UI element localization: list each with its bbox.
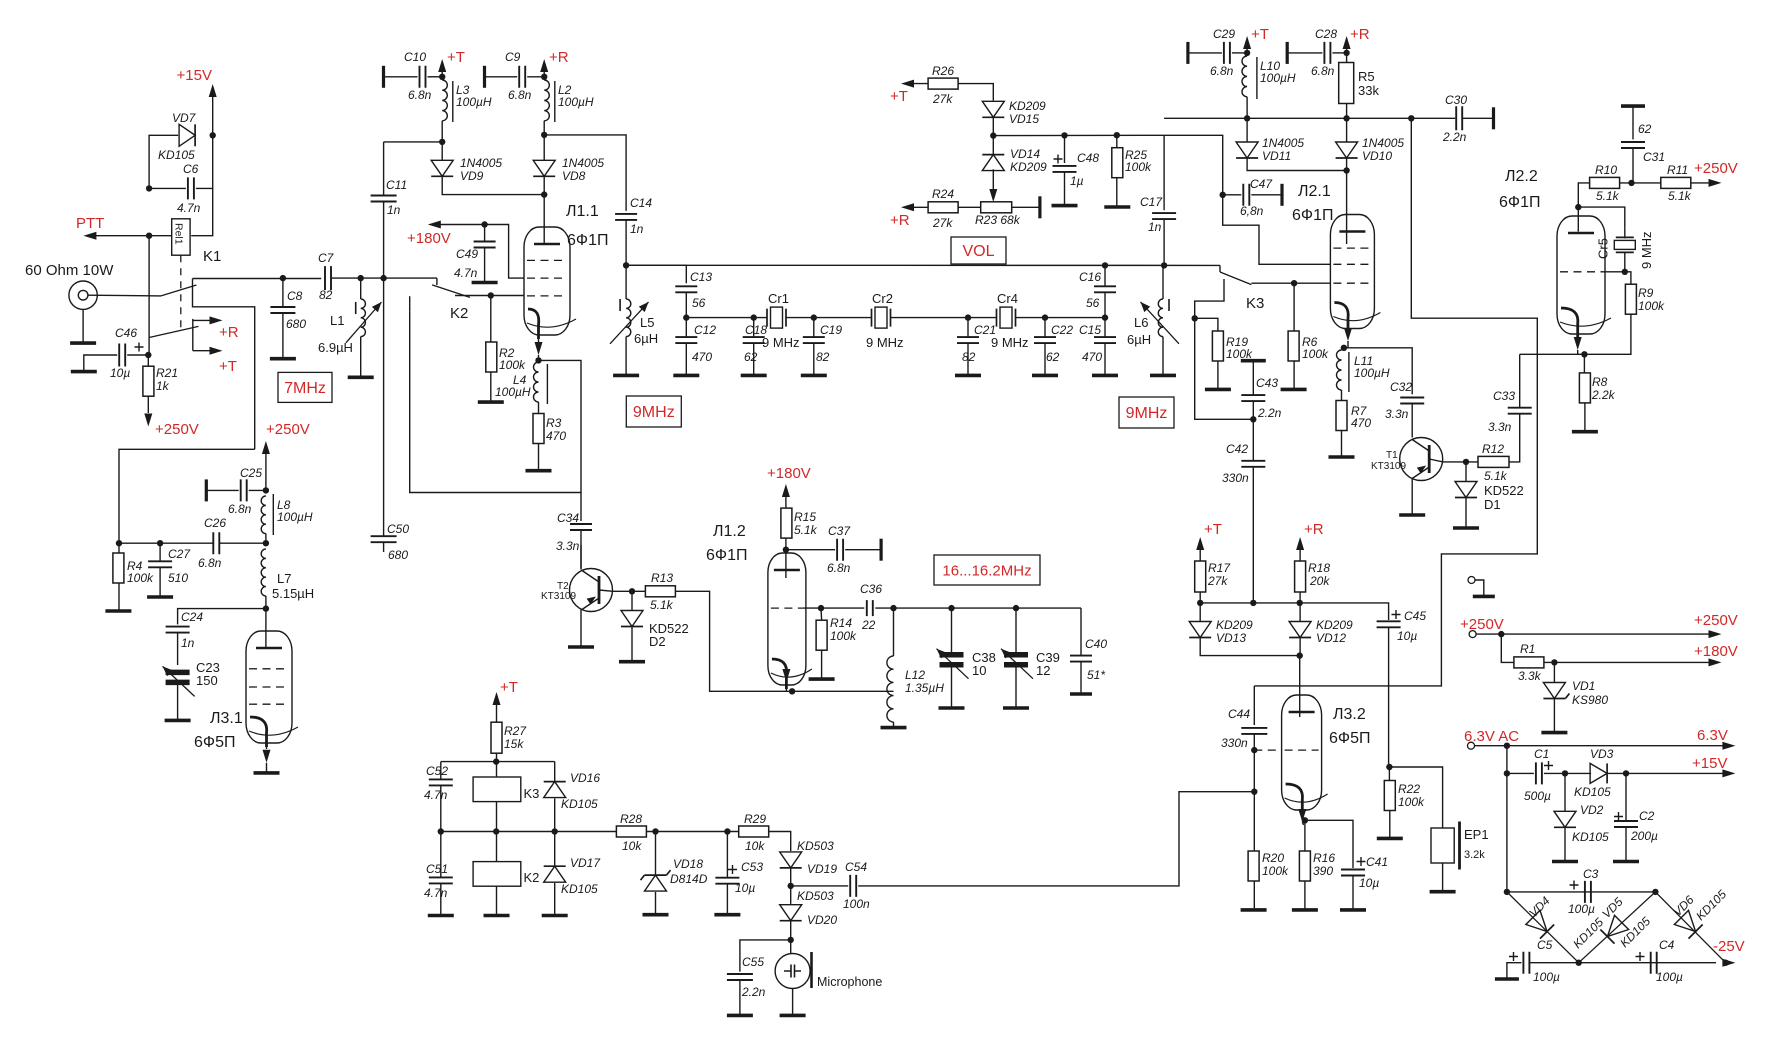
svg-text:6.8n: 6.8n (1210, 64, 1234, 78)
svg-text:C4: C4 (1659, 938, 1675, 952)
resistor R29 (739, 826, 769, 837)
switch K2 contact (436, 278, 438, 285)
tube L3.1 cathode arrow (263, 750, 271, 763)
resistor R7 (1336, 401, 1347, 431)
inductor L7 (261, 549, 266, 596)
svg-text:470: 470 (1351, 416, 1371, 430)
svg-text:C37: C37 (828, 524, 851, 538)
wire T1 base (1429, 459, 1478, 462)
svg-text:R20: R20 (1262, 851, 1284, 865)
svg-text:15k: 15k (504, 737, 524, 751)
resistor R25 (1116, 135, 1118, 148)
svg-text:R23 68k: R23 68k (975, 213, 1021, 227)
svg-text:6Ф1П: 6Ф1П (567, 232, 608, 249)
svg-text:9 MHz: 9 MHz (866, 335, 904, 350)
wire cathode feedback to C34 (539, 360, 582, 492)
svg-text:R1: R1 (1520, 642, 1535, 656)
resistor R10 (1590, 177, 1620, 188)
diode KD503 VD19 (780, 852, 802, 868)
svg-text:KD209: KD209 (1009, 99, 1046, 113)
switch K3 pole wire to grid (1251, 282, 1330, 284)
svg-text:4.7n: 4.7n (424, 886, 448, 900)
relay K3 box (473, 777, 521, 802)
svg-text:6Ф5П: 6Ф5П (194, 734, 235, 751)
diode VD16 (554, 762, 556, 782)
svg-text:KD105: KD105 (1572, 830, 1609, 844)
svg-text:6.8n: 6.8n (827, 561, 851, 575)
tube L3.2 cathode arrow (1298, 809, 1306, 822)
wire VD7 anode loop (149, 135, 178, 188)
svg-text:R26: R26 (932, 64, 954, 78)
diode VD17 (554, 832, 556, 867)
svg-text:Л1.1: Л1.1 (566, 203, 599, 220)
svg-text:C2: C2 (1639, 809, 1655, 823)
wire L2 junction to C14 (544, 135, 626, 211)
svg-text:KD209: KD209 (1216, 618, 1253, 632)
wire grid L3.2 dashes (1254, 749, 1281, 751)
wire R21 to +250V (147, 396, 149, 413)
inductor L1 variable (358, 275, 364, 281)
svg-text:C24: C24 (181, 610, 203, 624)
node +T arrow right (1243, 36, 1251, 49)
wire to C47 zigzag (1164, 135, 1330, 264)
resistor R18 (1295, 561, 1306, 592)
svg-text:C12: C12 (694, 323, 716, 337)
svg-text:C34: C34 (557, 511, 579, 525)
svg-text:K3: K3 (524, 786, 540, 801)
relay K2 box (473, 862, 521, 887)
wire VD15 rail (993, 134, 1164, 136)
svg-text:-25V: -25V (1713, 938, 1745, 955)
svg-text:L7: L7 (277, 571, 291, 586)
svg-text:KD105: KD105 (561, 797, 598, 811)
svg-text:6µH: 6µH (634, 331, 658, 346)
svg-text:100k: 100k (127, 571, 154, 585)
svg-text:9MHz: 9MHz (1126, 405, 1168, 422)
capacitor C1 (1507, 772, 1534, 774)
svg-text:R17: R17 (1208, 561, 1231, 575)
capacitor C33 (1509, 415, 1520, 462)
svg-text:3.3n: 3.3n (556, 539, 580, 553)
svg-text:3.3n: 3.3n (1488, 420, 1512, 434)
svg-text:9 MHz: 9 MHz (991, 335, 1029, 350)
diode VD4 (1507, 892, 1579, 963)
wire R17 R18 junction row (1200, 602, 1300, 604)
node +R arrow left (540, 59, 548, 72)
svg-text:VD15: VD15 (1009, 112, 1039, 126)
relay dashed actuator (180, 255, 182, 333)
crystal Cr4 (1000, 307, 1012, 328)
capacitor C10 (382, 66, 385, 88)
svg-text:C52: C52 (426, 764, 448, 778)
svg-text:1n: 1n (181, 636, 195, 650)
wire 6.3 down (1506, 746, 1508, 892)
capacitor C36 (867, 600, 873, 616)
tube L1.1 cathode arrow (535, 342, 543, 355)
node L5 junction (623, 262, 629, 268)
svg-text:K2: K2 (524, 870, 540, 885)
tube L3.2 (1282, 695, 1322, 810)
svg-text:R3: R3 (546, 416, 562, 430)
wire K2 bracket loop (410, 312, 581, 521)
potentiometer R23 arrow (989, 189, 997, 202)
capacitor C29 (1186, 42, 1189, 64)
svg-text:10µ: 10µ (1397, 629, 1417, 643)
svg-text:VD14: VD14 (1010, 147, 1040, 161)
svg-text:100µH: 100µH (558, 95, 594, 109)
node +T arrow R27 (493, 692, 501, 705)
capacitor C27 (159, 543, 161, 561)
diode KD503 VD20 (780, 905, 802, 921)
svg-text:R14: R14 (830, 616, 852, 630)
capacitor C45 (1392, 610, 1401, 619)
wire antenna to K1 (88, 294, 161, 297)
svg-text:22: 22 (861, 618, 876, 632)
svg-text:+R: +R (1350, 26, 1370, 43)
svg-text:3.3k: 3.3k (1518, 669, 1542, 683)
capacitor C51 (440, 832, 442, 878)
wire anode L3.2 (1299, 656, 1301, 717)
svg-text:1N4005: 1N4005 (1362, 136, 1404, 150)
box VOL (951, 237, 1006, 264)
diode VD8 (533, 160, 555, 176)
capacitor C49 (484, 225, 486, 242)
wire K1 loop to R4 (119, 449, 255, 543)
tube L2.1 (1330, 215, 1374, 329)
inductor L11 (1337, 350, 1342, 390)
wire cathode to C33 (1520, 353, 1585, 355)
svg-text:+250V: +250V (1694, 160, 1738, 177)
svg-text:KD503: KD503 (797, 839, 834, 853)
svg-text:C40: C40 (1085, 637, 1107, 651)
svg-text:R13: R13 (651, 571, 673, 585)
diode VD9 (431, 160, 453, 176)
capacitor C39 variable (1013, 605, 1019, 611)
svg-text:R29: R29 (744, 812, 766, 826)
svg-text:+R: +R (219, 324, 239, 341)
node +180V for R15 (782, 484, 790, 497)
capacitor C34 (570, 524, 592, 530)
wire filter row (686, 317, 767, 319)
svg-text:330n: 330n (1221, 736, 1248, 750)
svg-text:VD7: VD7 (172, 111, 197, 125)
svg-text:100µH: 100µH (1260, 71, 1296, 85)
resistor R26 (901, 80, 914, 88)
wire C24 branch (178, 609, 266, 625)
svg-text:5.1k: 5.1k (794, 523, 818, 537)
wire antenna RF line (193, 278, 322, 280)
inductor L10 (1242, 56, 1247, 97)
svg-text:VD9: VD9 (460, 169, 484, 183)
capacitor C46 (119, 344, 125, 367)
wire T2 emitter ground (580, 610, 582, 648)
svg-text:K1: K1 (203, 248, 221, 265)
inductor L8 (261, 496, 266, 534)
svg-text:C19: C19 (820, 323, 842, 337)
capacitor C16 (1094, 286, 1116, 292)
resistor R16 (1302, 817, 1308, 823)
tube L2.2 cathode arrow (1574, 337, 1582, 350)
svg-text:390: 390 (1313, 864, 1333, 878)
svg-text:PTT: PTT (76, 215, 104, 232)
svg-text:Cr5: Cr5 (1596, 238, 1611, 259)
wire grid L2.2 (1601, 271, 1625, 273)
svg-text:150: 150 (196, 673, 218, 688)
svg-text:10µ: 10µ (735, 881, 755, 895)
potentiometer R23 (981, 202, 1012, 213)
capacitor C48 (1064, 135, 1066, 163)
svg-text:82: 82 (962, 350, 976, 364)
capacitor C11 (384, 141, 443, 143)
capacitor C44 (1253, 686, 1255, 725)
svg-text:KS980: KS980 (1572, 693, 1608, 707)
svg-text:C36: C36 (860, 582, 882, 596)
svg-text:62: 62 (1046, 350, 1060, 364)
svg-text:10: 10 (972, 663, 986, 678)
svg-text:680: 680 (388, 548, 408, 562)
transistor T2 (570, 569, 613, 612)
capacitor C43 (1241, 359, 1266, 363)
svg-text:100µH: 100µH (1354, 366, 1390, 380)
tube L1.2 cathode arrow (782, 669, 790, 682)
svg-text:C25: C25 (240, 466, 262, 480)
crystal Cr2 (875, 307, 887, 328)
svg-text:C55: C55 (742, 955, 764, 969)
wire A anode run (1254, 118, 1537, 686)
svg-text:VD10: VD10 (1362, 149, 1392, 163)
svg-text:56: 56 (1086, 296, 1100, 310)
inductor L3 (442, 80, 447, 121)
svg-text:L1: L1 (330, 313, 344, 328)
svg-text:6.8n: 6.8n (198, 556, 222, 570)
svg-text:C45: C45 (1404, 609, 1426, 623)
svg-text:C5: C5 (1537, 938, 1553, 952)
svg-text:VD3: VD3 (1590, 747, 1614, 761)
capacitor C8 (280, 275, 286, 281)
svg-text:C47: C47 (1250, 177, 1273, 191)
svg-text:C44: C44 (1228, 707, 1250, 721)
svg-text:+T: +T (447, 49, 465, 66)
svg-text:Л2.2: Л2.2 (1505, 168, 1538, 185)
svg-text:C11: C11 (386, 178, 407, 192)
svg-text:KD209: KD209 (1316, 618, 1353, 632)
wire C34 to T2 (580, 545, 582, 570)
wire bridge bottom (1530, 962, 1716, 964)
svg-text:VD19: VD19 (807, 862, 837, 876)
capacitor C54 (791, 885, 849, 887)
svg-text:5.15µH: 5.15µH (272, 586, 314, 601)
crystal Cr5 (1624, 228, 1626, 238)
box 9MHz left (626, 396, 681, 427)
svg-text:6µH: 6µH (1127, 332, 1151, 347)
svg-text:33k: 33k (1358, 83, 1379, 98)
svg-text:1n: 1n (387, 203, 401, 217)
svg-text:330n: 330n (1222, 471, 1249, 485)
svg-text:D2: D2 (649, 634, 666, 649)
svg-text:KD522: KD522 (1484, 483, 1524, 498)
diode VD15 (982, 101, 1004, 117)
terminal chassis (1468, 577, 1475, 584)
svg-text:R12: R12 (1482, 442, 1504, 456)
wire R13 to cathode L1.2 (675, 591, 792, 691)
svg-text:1n: 1n (630, 222, 644, 236)
wire C11 main vertical (380, 275, 386, 281)
capacitor C40 (1080, 608, 1082, 655)
svg-text:VD18: VD18 (673, 857, 703, 871)
svg-text:L12: L12 (905, 668, 925, 682)
capacitor C9 (483, 66, 486, 88)
svg-text:+250V: +250V (1694, 612, 1738, 629)
capacitor C6 (188, 177, 194, 199)
svg-text:470: 470 (1082, 350, 1102, 364)
svg-text:C17: C17 (1140, 195, 1163, 209)
svg-text:5.1k: 5.1k (1484, 469, 1508, 483)
svg-text:KT3109: KT3109 (1371, 461, 1406, 472)
svg-text:C26: C26 (204, 516, 226, 530)
svg-text:C48: C48 (1077, 151, 1099, 165)
capacitor C15 (1102, 314, 1108, 320)
svg-text:100k: 100k (1125, 160, 1152, 174)
svg-text:K3: K3 (1246, 295, 1264, 312)
capacitor C14 (615, 214, 637, 220)
svg-text:4.7n: 4.7n (424, 788, 448, 802)
svg-text:KT3109: KT3109 (541, 591, 576, 602)
resistor R14 (820, 608, 823, 620)
svg-text:+R: +R (549, 49, 569, 66)
tube L1.1 (524, 227, 570, 335)
capacitor C17 (1163, 135, 1165, 210)
svg-text:1k: 1k (156, 379, 170, 393)
svg-text:10k: 10k (622, 839, 642, 853)
svg-text:R28: R28 (620, 812, 642, 826)
wire L8 to junction (265, 534, 267, 544)
svg-text:D814D: D814D (670, 872, 708, 886)
svg-text:6Ф1П: 6Ф1П (1292, 207, 1333, 224)
resistor R3 (533, 414, 544, 444)
capacitor C50 (371, 536, 397, 542)
svg-text:27k: 27k (932, 92, 953, 106)
capacitor C12 (675, 337, 697, 343)
node +R arrow (193, 319, 213, 321)
svg-text:16...16.2MHz: 16...16.2MHz (942, 563, 1031, 580)
svg-text:VD8: VD8 (562, 169, 586, 183)
tube L2.1 cathode arrow (1344, 328, 1352, 341)
resistor R22 (1386, 764, 1392, 770)
svg-text:1n: 1n (1148, 220, 1162, 234)
svg-text:4.7n: 4.7n (177, 201, 201, 215)
wire cathode tap to L12 (792, 690, 893, 692)
capacitor C3 (1585, 881, 1591, 903)
switch K1 section 2 bracket (192, 319, 194, 351)
svg-text:R15: R15 (794, 510, 816, 524)
svg-text:+250V: +250V (1460, 616, 1504, 633)
capacitor C13 (675, 286, 697, 292)
capacitor C38 variable (948, 605, 954, 611)
svg-text:9 MHz: 9 MHz (762, 335, 800, 350)
diode VD1 KS980 (1553, 662, 1555, 682)
diode KD522 D1 (1465, 462, 1467, 481)
capacitor C7 (325, 266, 331, 290)
svg-text:C43: C43 (1256, 376, 1278, 390)
svg-text:6Ф1П: 6Ф1П (1499, 194, 1540, 211)
switch K3 bracket (1195, 279, 1224, 318)
tube L3.1 anode lead (265, 631, 267, 648)
svg-text:2.2n: 2.2n (1257, 406, 1282, 420)
svg-text:20k: 20k (1309, 574, 1330, 588)
capacitor C37 (786, 549, 835, 551)
node +180V (428, 221, 441, 229)
svg-text:3.2k: 3.2k (1464, 849, 1485, 861)
svg-text:12: 12 (1036, 663, 1050, 678)
svg-text:Л3.1: Л3.1 (210, 710, 243, 727)
svg-text:C32: C32 (1390, 380, 1412, 394)
diode VD6 (1655, 892, 1725, 963)
capacitor C5 (1523, 952, 1529, 974)
svg-text:+250V: +250V (155, 421, 199, 438)
diode VD10 (1336, 142, 1358, 158)
svg-text:3.3n: 3.3n (1385, 407, 1409, 421)
svg-text:100k: 100k (1226, 347, 1253, 361)
resistor R20 (1253, 792, 1255, 852)
svg-text:100k: 100k (1638, 299, 1665, 313)
diode VD18 D814D (655, 832, 657, 876)
wire to C45 (1300, 603, 1389, 620)
svg-text:C30: C30 (1445, 93, 1467, 107)
svg-text:5.1k: 5.1k (1596, 189, 1620, 203)
svg-text:62: 62 (744, 350, 758, 364)
svg-text:100k: 100k (1262, 864, 1289, 878)
svg-text:200µ: 200µ (1630, 829, 1658, 843)
svg-text:2.2n: 2.2n (1442, 130, 1467, 144)
capacitor C53 (726, 832, 728, 878)
svg-text:C51: C51 (426, 862, 448, 876)
diode KD209 VD12 (1289, 622, 1311, 638)
capacitor C4 (1651, 952, 1657, 974)
node +R arrow R18 (1296, 537, 1304, 550)
svg-text:510: 510 (168, 571, 188, 585)
svg-text:100k: 100k (499, 358, 526, 372)
ground BNC (82, 309, 84, 343)
svg-text:C46: C46 (115, 326, 137, 340)
svg-text:KD105: KD105 (561, 882, 598, 896)
svg-text:VD1: VD1 (1572, 679, 1595, 693)
svg-text:EP1: EP1 (1464, 827, 1489, 842)
svg-text:VD16: VD16 (570, 771, 600, 785)
svg-text:470: 470 (692, 350, 712, 364)
svg-text:C31: C31 (1643, 150, 1665, 164)
capacitor C23 variable (166, 672, 190, 682)
relay Rel1 (172, 219, 190, 255)
svg-text:+T: +T (890, 88, 908, 105)
svg-text:2.2n: 2.2n (741, 985, 766, 999)
switch K3 blade (1219, 265, 1221, 272)
svg-text:C9: C9 (505, 50, 521, 64)
svg-text:R24: R24 (932, 187, 954, 201)
switch K1 contact top (193, 279, 255, 450)
switch K2 bracket (409, 296, 411, 312)
svg-text:R22: R22 (1398, 782, 1420, 796)
svg-text:82: 82 (319, 288, 333, 302)
node +T arrow (193, 350, 213, 352)
microphone (775, 954, 810, 989)
svg-text:KD105: KD105 (158, 148, 195, 162)
box 16...16.2MHz (934, 555, 1040, 585)
wire L5 to K3 (626, 264, 1220, 266)
capacitor C41 (1305, 820, 1353, 868)
node +T arrow left (438, 59, 446, 72)
svg-text:100µ: 100µ (1656, 970, 1683, 984)
wire K3 to C43 junction (1195, 318, 1254, 419)
